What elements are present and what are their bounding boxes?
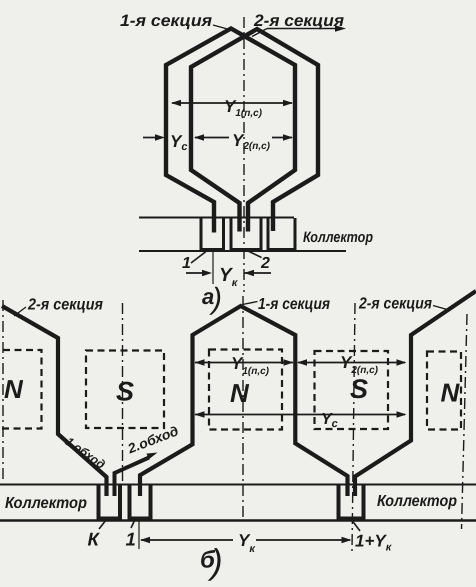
- svg-text:2-я секция: 2-я секция: [27, 297, 103, 314]
- svg-text:2-я секция: 2-я секция: [253, 12, 344, 30]
- svg-text:Коллектор: Коллектор: [303, 229, 373, 246]
- svg-text:1: 1: [126, 529, 136, 550]
- svg-text:К: К: [88, 529, 101, 550]
- svg-text:N: N: [230, 378, 250, 408]
- svg-text:2: 2: [260, 255, 270, 272]
- svg-text:S: S: [116, 377, 134, 407]
- svg-text:1: 1: [182, 255, 191, 272]
- svg-text:N: N: [4, 374, 24, 404]
- svg-text:N: N: [441, 378, 461, 408]
- svg-text:2-я секция: 2-я секция: [358, 296, 432, 313]
- svg-text:1-я секция: 1-я секция: [258, 296, 330, 313]
- svg-text:S: S: [350, 374, 368, 404]
- svg-text:Коллектор: Коллектор: [5, 495, 87, 512]
- svg-text:Коллектор: Коллектор: [377, 493, 457, 510]
- svg-text:1-я секция: 1-я секция: [120, 12, 212, 30]
